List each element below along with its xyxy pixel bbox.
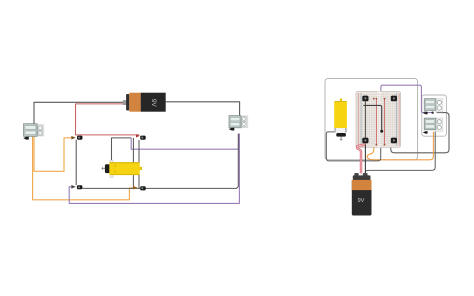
wire W3 gray: battery BAT1 right to motor M2 top (166, 102, 240, 116)
node dot N1 (380, 130, 383, 133)
gearmotor M5 (423, 99, 443, 115)
wire W11 gray: switch S2 down to bottom bus (138, 140, 140, 188)
wire W6 gray: switch S1 to switch S3 (75, 140, 77, 185)
breadboard switch S7 (362, 138, 368, 144)
motor M1 hobby gearmotor left (23, 124, 44, 140)
breadboard right power rail (395, 93, 397, 145)
motor M2 shaft tab (229, 128, 235, 131)
breadboard switch S8 (391, 138, 397, 144)
gearmotor M5 terminal dots (424, 112, 426, 114)
wire W1 gray: motor M1 top to battery BAT1 negative (34, 102, 126, 124)
wire W29 black: breadboard to battery BAT2 negative-side terminal (364, 143, 366, 173)
gearmotor M5 shaft tab (423, 112, 428, 114)
svg-text:9V: 9V (150, 99, 157, 108)
motor M3 yellow DC motor (102, 160, 143, 177)
wire W21 gray: gearmotor M5 to breadboard bottom right (391, 113, 449, 153)
wire W4 orange: motor M1 bottom to switch S1 (34, 137, 71, 172)
motor M2 hobby gearmotor right (229, 116, 248, 131)
switch S4 (133, 186, 146, 191)
switch S2 (136, 134, 146, 139)
wire end dots on breadboard columns (373, 98, 386, 146)
wire W10 gray: node J1 down to bottom bus (132, 138, 134, 189)
group box G1 (325, 79, 418, 160)
wire W25 dark: breadboard column switch S5 to S7 (364, 101, 366, 137)
gearmotor M6 (423, 118, 443, 134)
breadboard switch S5 (362, 96, 368, 102)
wire W12 gray: bottom bus from switch S3 to motor M2 bottom (83, 134, 239, 189)
wire W5 orange: motor M1 bottom to switch S4 (33, 137, 134, 200)
wire W23 gray: gearmotor M6 to battery BAT2 positive (366, 132, 436, 174)
wire W7 purple: node J1 to motor M2 bottom (131, 134, 239, 150)
wire W26 red: breadboard column (375, 99, 377, 145)
wire W9 gray: node J1 to motor M3 pin (112, 138, 132, 160)
wire W28 black: switch S5 to node dot (363, 105, 381, 131)
wire W20 purple: breadboard top to gearmotor M5 (381, 85, 433, 112)
svg-text:9V: 9V (358, 198, 365, 204)
breadboard switch S6 (391, 96, 397, 102)
switch S1 (71, 136, 82, 140)
gearmotor M6 shaft tab (423, 131, 428, 133)
motor M4 yellow DC motor vertical (334, 98, 347, 140)
wire W8 purple: motor M2 bottom to switch S3 (69, 134, 239, 204)
switch S3 (71, 185, 82, 189)
battery BAT1 9V horizontal (123, 93, 166, 112)
group box G2 (422, 95, 447, 136)
wire W24 gray: motor M4 pin to breadboard bottom (326, 132, 380, 161)
battery BAT2 9V vertical (352, 173, 372, 216)
wire W22 orange: gearmotor M6 to breadboard bottom (367, 99, 433, 160)
wire W30 pink: switch S7 to battery BAT2 (357, 143, 365, 173)
wire W27 red: breadboard column (384, 99, 386, 145)
breadboard BB1 (356, 91, 401, 147)
wire W2 red: battery BAT1 positive to switch S2 (76, 104, 140, 135)
breadboard left power rail (357, 93, 359, 145)
motor M1 shaft tab (23, 137, 29, 140)
